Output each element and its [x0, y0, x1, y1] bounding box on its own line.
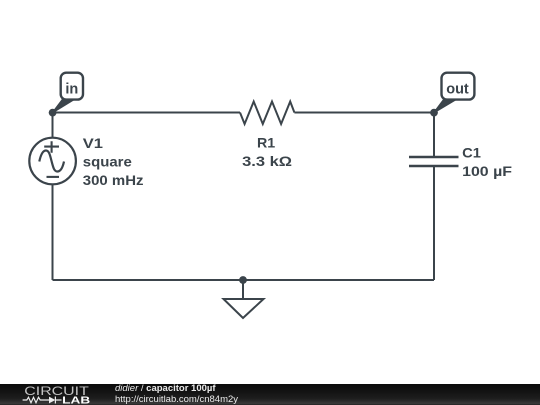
wire top-right: resistor R1 to node out	[294, 112, 434, 114]
wire: node out down to capacitor C1	[433, 113, 435, 158]
svg-text:100 µF: 100 µF	[462, 163, 512, 179]
node flag in	[53, 73, 83, 113]
wire: capacitor C1 down to bottom rail	[433, 166, 435, 280]
svg-text:C1: C1	[462, 145, 481, 161]
resistor R1	[240, 102, 294, 125]
wire: node in down to V1 top	[52, 113, 54, 139]
svg-text:out: out	[446, 82, 469, 98]
label C1 value	[462, 145, 512, 180]
ground junction dot	[239, 276, 247, 284]
svg-text:300 mHz: 300 mHz	[83, 172, 144, 188]
wire: V1 bottom down to bottom rail	[52, 184, 54, 280]
svg-text:in: in	[65, 82, 78, 98]
svg-text:3.3 kΩ: 3.3 kΩ	[242, 153, 292, 169]
wire top-left: node in to resistor R1	[53, 112, 241, 114]
label R1 value	[242, 134, 292, 169]
capacitor C1	[409, 157, 459, 166]
svg-text:V1: V1	[83, 135, 103, 151]
footer bar	[0, 384, 540, 405]
node in junction dot	[49, 109, 57, 117]
label V1 value	[83, 135, 144, 188]
wire bottom rail	[53, 279, 435, 281]
ground	[224, 280, 264, 318]
svg-text:R1: R1	[257, 134, 275, 150]
node flag out	[434, 73, 474, 113]
footer url line	[115, 395, 238, 405]
svg-text:LAB: LAB	[62, 395, 90, 405]
voltage source V1	[29, 138, 76, 185]
node out junction dot	[430, 109, 438, 117]
circuitlab logo	[22, 384, 102, 405]
svg-text:square: square	[83, 154, 132, 170]
footer credit line	[115, 384, 216, 394]
